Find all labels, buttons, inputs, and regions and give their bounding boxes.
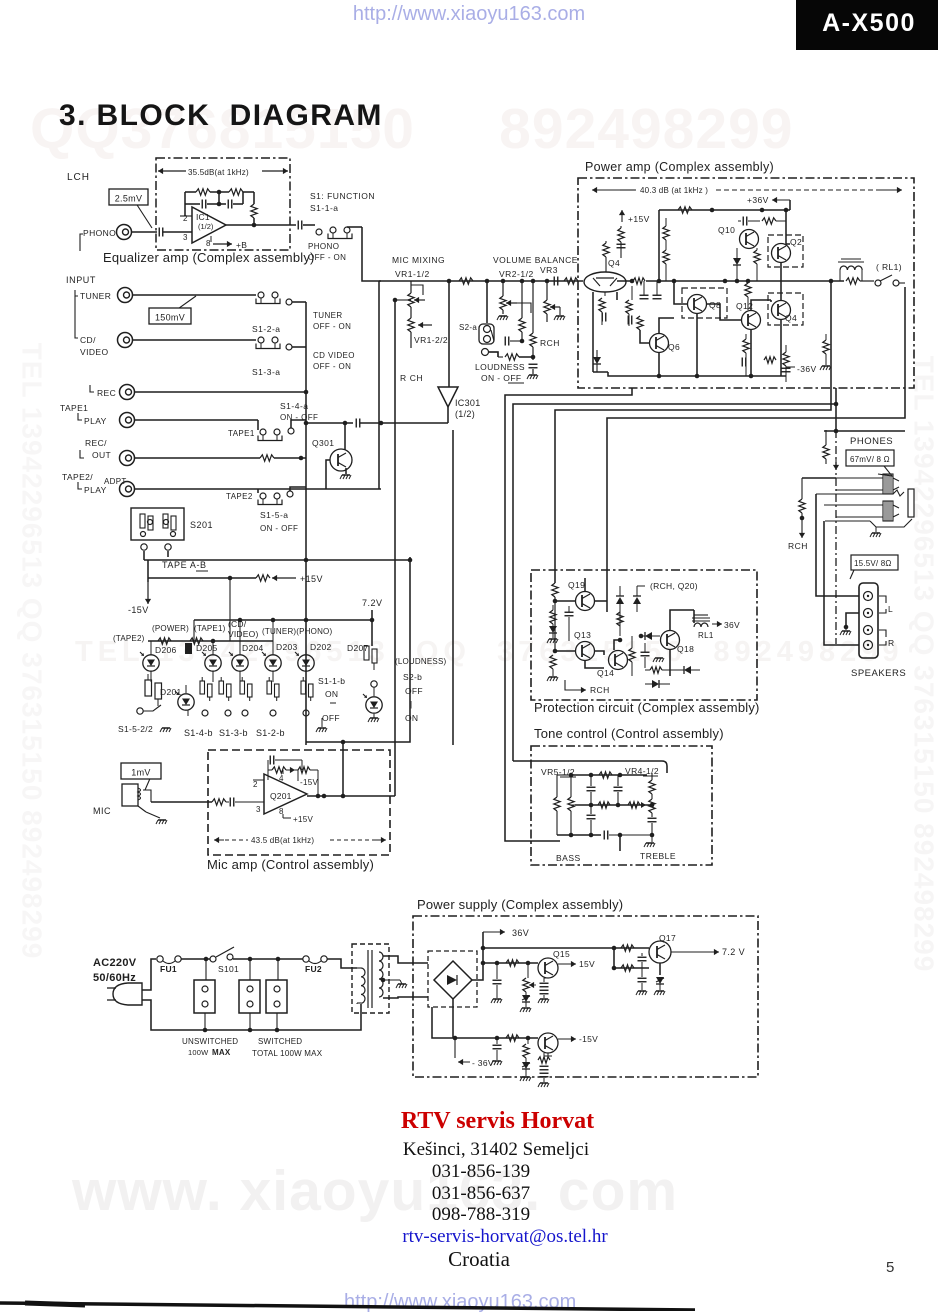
resistor q17 base: [621, 945, 634, 951]
svg-text:VOLUME BALANCE: VOLUME BALANCE: [493, 255, 578, 265]
ground treble: [651, 835, 653, 842]
resistor q19 base: [552, 583, 558, 597]
resistor neg: [506, 1035, 519, 1041]
svg-text:SPEAKERS: SPEAKERS: [851, 668, 906, 679]
svg-text:PHONO: PHONO: [308, 242, 339, 251]
LED D202: [295, 652, 314, 671]
wire run W4: [607, 287, 905, 612]
svg-text:(LOUDNESS): (LOUDNESS): [395, 657, 446, 666]
connector TUNER jack: [118, 288, 133, 303]
ground ps1: [491, 999, 502, 1003]
svg-text:CD VIDEO: CD VIDEO: [313, 351, 355, 360]
svg-text:LOUDNESS: LOUDNESS: [475, 362, 525, 372]
label -36V ps: [454, 1038, 456, 1058]
potentiometer VR2: [502, 281, 504, 296]
capacitor c1: [640, 295, 649, 299]
wire out drop: [835, 388, 837, 430]
svg-text:S201: S201: [190, 520, 213, 530]
resistor q15: [506, 960, 519, 966]
wire q8 base: [674, 281, 688, 304]
LED D203: [262, 652, 281, 671]
AC plug: [113, 983, 142, 1005]
callout 1mV: [121, 763, 161, 790]
tone bottom rail: [557, 834, 601, 836]
capacitor q17: [641, 953, 643, 956]
transistor Q16: [538, 1033, 558, 1053]
svg-text:(TAPE1): (TAPE1): [194, 624, 226, 633]
capacitor balance: [529, 364, 538, 368]
capacitor q17 e: [641, 975, 643, 977]
wire bridge neg: [452, 999, 454, 1038]
wire to fu2: [233, 958, 303, 960]
ground zn: [520, 1077, 531, 1081]
wire speaker R: [824, 521, 859, 645]
switch pair S1-5: [145, 680, 152, 696]
ground phones: [875, 527, 877, 532]
tone mid rail: [575, 804, 652, 806]
resistor vr5b: [570, 775, 572, 797]
svg-text:S1-5-2/2: S1-5-2/2: [118, 724, 153, 734]
svg-text:(TAPE2): (TAPE2): [113, 634, 145, 643]
phones feed line: [824, 430, 905, 432]
svg-text:UNSWITCHED: UNSWITCHED: [182, 1037, 238, 1046]
contact row: [202, 710, 208, 716]
wire q17 lower: [614, 948, 649, 968]
switch S201: [131, 508, 184, 540]
wires led row to switches: [187, 710, 189, 716]
resistor in1: [605, 241, 607, 243]
resistor q15 base leg: [527, 963, 529, 978]
wire play: [135, 419, 258, 421]
svg-text:Q10: Q10: [718, 225, 735, 235]
wire run W2: [513, 404, 836, 761]
svg-text:VR2-1/2: VR2-1/2: [499, 269, 534, 279]
bridge rectifier box: [428, 951, 477, 1007]
svg-text:Q13: Q13: [574, 630, 591, 640]
resistor loudness2: [505, 354, 519, 360]
svg-text:MIC MIXING: MIC MIXING: [392, 255, 445, 265]
gain measure 35.5dB(at 1kHz): [158, 168, 186, 174]
svg-text:Q4: Q4: [785, 313, 797, 323]
pin 1: [226, 224, 296, 226]
wire q6 base: [640, 330, 649, 343]
svg-text:100W: 100W: [188, 1048, 209, 1057]
svg-text:D203: D203: [276, 642, 298, 652]
svg-text:-15V: -15V: [579, 1034, 598, 1044]
svg-text:R CH: R CH: [400, 373, 423, 383]
connector PLAY jack: [120, 413, 135, 428]
svg-text:TAPE2: TAPE2: [226, 492, 253, 501]
svg-text:2.5mV: 2.5mV: [115, 194, 143, 204]
resistor fb2: [229, 189, 243, 195]
wire q301 base: [326, 460, 330, 489]
wire to s101: [181, 958, 210, 960]
capacitor q19: [565, 612, 574, 616]
resistor vr5a: [556, 775, 558, 797]
svg-text:+15V: +15V: [628, 214, 650, 224]
fuse FU2: [303, 956, 309, 962]
diode d19b: [633, 596, 641, 604]
svg-text:D205: D205: [196, 643, 218, 653]
negative rail: [432, 1007, 538, 1038]
capacitor c2: [653, 295, 662, 299]
capacitor loudness: [498, 356, 503, 358]
terminal L+: [864, 592, 873, 601]
resistor re2: [743, 339, 749, 353]
transistor Q18: [661, 631, 680, 650]
capacitor mic in: [230, 798, 234, 807]
svg-text:4: 4: [279, 774, 284, 783]
svg-text:TREBLE: TREBLE: [640, 851, 676, 861]
svg-text:Tone control (Control assembly: Tone control (Control assembly): [534, 726, 724, 741]
switch S1-2-a: [256, 292, 280, 304]
svg-text:Protection circuit (Complex as: Protection circuit (Complex assembly): [534, 700, 760, 715]
resistor q16 leg: [527, 1038, 529, 1044]
svg-text:OUT: OUT: [92, 450, 111, 460]
LED D201: [175, 691, 194, 710]
wire Q301 collector: [344, 423, 346, 450]
diode vbe: [593, 357, 601, 364]
svg-text:PHONES: PHONES: [850, 436, 893, 447]
wire mic input: [151, 801, 212, 803]
svg-text:2: 2: [253, 780, 258, 789]
vertical feed q10: [658, 210, 660, 281]
svg-text:( RL1): ( RL1): [876, 262, 902, 272]
phones dash bus: [835, 430, 837, 644]
svg-text:35.5dB(at 1kHz): 35.5dB(at 1kHz): [188, 168, 249, 177]
capacitor q15 e: [543, 978, 545, 982]
ground balance: [527, 375, 538, 379]
svg-text:OFF: OFF: [322, 713, 340, 723]
switch D207: [364, 646, 369, 660]
wire speaker L: [816, 494, 859, 596]
callout 15.5V/8ohm: [851, 555, 898, 570]
capacitor q4e: [602, 313, 606, 322]
label R: [879, 630, 886, 645]
svg-text:D201: D201: [160, 687, 182, 697]
svg-text:REC/: REC/: [85, 438, 107, 448]
wire IC301 output: [447, 407, 449, 423]
wire secondary top: [383, 956, 428, 963]
svg-text:-36V: -36V: [797, 364, 817, 374]
svg-text:43.5 dB(at 1kHz): 43.5 dB(at 1kHz): [251, 836, 314, 845]
svg-text:Q6: Q6: [668, 342, 680, 352]
dashed box Q4: [768, 293, 803, 325]
wire q15 feed: [483, 962, 538, 964]
wire tuner: [133, 294, 256, 296]
resistor vr4 top: [651, 773, 653, 780]
potentiometer VR1-2/2: [408, 318, 414, 332]
diode zener2: [656, 977, 664, 984]
svg-text:S1-1-a: S1-1-a: [310, 203, 339, 213]
diode zenern: [522, 1062, 530, 1069]
equalizer amp assembly box: [156, 158, 290, 250]
svg-text:MIC: MIC: [93, 806, 111, 816]
resistor r5: [754, 250, 760, 264]
svg-text:S2-b: S2-b: [403, 672, 422, 682]
protection assembly box: [531, 570, 757, 700]
svg-text:36V: 36V: [724, 620, 740, 630]
wire mains top: [142, 959, 156, 990]
potentiometer VR3: [546, 281, 548, 300]
svg-text:VR1-2/2: VR1-2/2: [414, 335, 448, 345]
diode q18 base: [645, 632, 652, 640]
resistor q10: [762, 218, 776, 224]
resistor main: [564, 278, 578, 284]
resistor q14 r: [631, 636, 633, 648]
svg-text:RL1: RL1: [698, 631, 714, 640]
contact left: [137, 708, 143, 714]
svg-text:36V: 36V: [512, 928, 529, 938]
mic connector: [122, 784, 138, 806]
svg-text:D202: D202: [310, 642, 332, 652]
svg-text:Q2: Q2: [790, 237, 802, 247]
jack sleeve: [908, 489, 914, 517]
ground mic: [146, 812, 160, 818]
resistor rail: [678, 207, 692, 213]
label 36V prot: [712, 621, 722, 627]
resistor fb main: [633, 278, 645, 284]
svg-text:S1: FUNCTION: S1: FUNCTION: [310, 191, 375, 201]
diode left: [549, 626, 557, 633]
svg-text:Q15: Q15: [553, 949, 570, 959]
resistor r8: [823, 340, 829, 354]
svg-text:8: 8: [206, 239, 211, 248]
resistor q4e: [604, 292, 606, 296]
svg-text:15.5V/ 8Ω: 15.5V/ 8Ω: [854, 559, 892, 568]
connector REC/OUT jack: [120, 451, 135, 466]
svg-text:3: 3: [183, 233, 188, 242]
feedback mic cap: [267, 760, 269, 780]
tone top rail: [571, 774, 647, 776]
resistor +15V: [256, 575, 270, 581]
svg-text:Q19: Q19: [568, 580, 585, 590]
svg-text:RCH: RCH: [590, 685, 610, 695]
capacitor tone c1: [590, 775, 592, 786]
svg-text:+15V: +15V: [300, 574, 323, 584]
wire secondary bottom: [383, 997, 428, 998]
feedback mic res1: [268, 769, 272, 771]
svg-text:- 36V: - 36V: [472, 1058, 494, 1068]
capacitor -36: [782, 368, 791, 372]
wire speaker gnd: [846, 613, 859, 627]
svg-text:40.3 dB (at 1kHz ): 40.3 dB (at 1kHz ): [640, 186, 708, 195]
resistor led rail2: [190, 638, 203, 644]
wire mains bottom: [142, 1000, 361, 1030]
ground s11b: [316, 728, 327, 732]
ground q13: [547, 677, 558, 681]
terminal R-: [864, 626, 873, 635]
svg-text:S1-3-b: S1-3-b: [219, 728, 248, 738]
capacitor q10: [743, 217, 747, 226]
outlet unswitched: [194, 980, 215, 1013]
svg-text:15V: 15V: [579, 959, 595, 969]
svg-text:D204: D204: [242, 643, 264, 653]
headphone plug 2: [824, 505, 883, 517]
ground -36: [496, 1058, 498, 1060]
wire run W3: [555, 281, 831, 583]
wire +15V feed: [148, 577, 256, 579]
switch S1-2-b2: [267, 677, 279, 701]
connector REC jack: [120, 385, 135, 400]
svg-text:AC220V: AC220V: [93, 957, 137, 969]
relay RL1 prot: [694, 623, 708, 627]
bridge rectifier: [434, 961, 472, 999]
svg-text:(POWER): (POWER): [152, 624, 189, 633]
diode low: [684, 666, 691, 674]
junction dots main line: [630, 279, 635, 284]
ground loudness led: [368, 718, 379, 722]
ground s15: [160, 728, 171, 732]
led rail A: [194, 619, 372, 621]
svg-text:67mV/ 8 Ω: 67mV/ 8 Ω: [850, 455, 890, 464]
svg-text:ON: ON: [405, 713, 418, 723]
svg-text:PHONO: PHONO: [83, 228, 116, 238]
callout 67mV/8ohm: [846, 450, 894, 466]
wire emitters: [659, 314, 781, 376]
svg-text:RCH: RCH: [788, 541, 808, 551]
svg-text:REC: REC: [97, 388, 116, 398]
label L: [879, 596, 886, 613]
label +15V mic: [283, 817, 291, 819]
wire vr1 down: [394, 300, 396, 796]
diode zener1: [522, 995, 530, 1002]
svg-text:D206: D206: [155, 645, 177, 655]
transformer center tap: [383, 979, 400, 981]
svg-text:(RCH, Q20): (RCH, Q20): [650, 581, 698, 591]
ground Q301: [345, 468, 347, 474]
svg-text:Mic amp (Control assembly): Mic amp (Control assembly): [207, 857, 374, 872]
svg-text:(1/2): (1/2): [198, 222, 214, 231]
wire loudness bus: [452, 430, 454, 745]
capacitor q14: [641, 652, 650, 656]
connector PLAY2 jack: [120, 482, 135, 497]
svg-text:1mV: 1mV: [131, 768, 150, 778]
svg-text:MAX: MAX: [212, 1048, 231, 1057]
svg-text:TOTAL 100W MAX: TOTAL 100W MAX: [252, 1049, 323, 1058]
speaker terminal strip: [859, 583, 878, 658]
resistor loudness tap: [521, 281, 523, 318]
LED D206: [140, 652, 159, 671]
svg-text:S1-5-a: S1-5-a: [260, 510, 289, 520]
power amp assembly box: [578, 178, 914, 388]
contact S2-a: [482, 349, 489, 356]
main input bus: [305, 302, 307, 745]
capacitor ps1: [496, 963, 498, 979]
svg-text:+36V: +36V: [747, 195, 769, 205]
switch S101: [210, 956, 216, 962]
svg-text:PLAY: PLAY: [84, 485, 107, 495]
headphone plug 1: [836, 478, 883, 490]
svg-text:ADPT: ADPT: [104, 477, 127, 486]
capacitor after IC1: [298, 221, 302, 230]
wire q18 emit: [669, 650, 671, 676]
diode d19a: [616, 596, 624, 604]
LED D205: [202, 652, 221, 671]
capacitor c3: [628, 316, 632, 325]
diode d2: [733, 258, 741, 265]
svg-text:CD/: CD/: [80, 335, 96, 345]
capacitor muting: [356, 419, 360, 428]
diode low2: [652, 680, 659, 688]
svg-text:S1-1-b: S1-1-b: [318, 676, 345, 686]
svg-text:Equalizer amp (Complex assembl: Equalizer amp (Complex assembly): [103, 250, 315, 265]
rail 36V: [483, 947, 649, 949]
svg-text:OFF - ON: OFF - ON: [313, 362, 351, 371]
main signal line: [379, 280, 583, 282]
svg-text:S2-a: S2-a: [459, 323, 477, 332]
svg-text:ON - OFF: ON - OFF: [481, 373, 522, 383]
ground low: [653, 658, 664, 662]
jack outline 2: [825, 519, 912, 527]
wire play2: [135, 488, 381, 490]
svg-text:150mV: 150mV: [155, 313, 185, 323]
resistor q13 left: [550, 655, 556, 669]
switch S1-2-b: [240, 677, 252, 701]
switch S1-4-b: [200, 677, 212, 701]
svg-text:(1/2): (1/2): [455, 409, 475, 419]
wire to trafo: [327, 959, 357, 968]
wire tape monitor bus: [306, 557, 410, 742]
svg-text:TAPE1: TAPE1: [60, 403, 88, 413]
resistor bias1: [620, 226, 622, 228]
wire q16 emitter: [544, 1053, 552, 1056]
svg-text:VIDEO: VIDEO: [80, 347, 108, 357]
op-amp Q201: [264, 774, 307, 814]
ground left: [552, 633, 554, 638]
ground n3: [538, 1083, 549, 1087]
wire muting line: [306, 422, 353, 424]
svg-text:R: R: [888, 638, 895, 648]
svg-text:TUNER: TUNER: [80, 291, 111, 301]
svg-text:VR1-1/2: VR1-1/2: [395, 269, 430, 279]
wire q2-q4: [780, 263, 782, 301]
dashed box Q2: [768, 235, 803, 267]
wire cd: [133, 339, 256, 341]
gain measure 40.3dB: [592, 187, 620, 193]
op-amp IC1 (1/2): [192, 207, 226, 243]
outlet switched1: [239, 980, 260, 1013]
resistor rch phones: [801, 478, 803, 499]
resistor re1: [745, 283, 751, 297]
svg-text:Q18: Q18: [677, 644, 694, 654]
resistor tone mid2: [628, 802, 640, 808]
callout 2.5mV: [109, 189, 152, 228]
relay RL1 coil: [839, 270, 841, 281]
dashed box Q8: [682, 288, 727, 318]
wire mic out riser: [342, 742, 344, 796]
tab mark D205: [185, 643, 192, 654]
svg-text:OFF: OFF: [405, 686, 423, 696]
wire q4 tail: [592, 292, 594, 372]
outlet switched2: [266, 980, 287, 1013]
tone control assembly box: [531, 746, 712, 865]
ground ps3: [636, 991, 647, 995]
wire q8-q12: [707, 304, 741, 320]
svg-text:BASS: BASS: [556, 853, 581, 863]
wire rec: [135, 391, 306, 393]
led rail B: [148, 640, 273, 642]
transistor Q4 lower: [772, 301, 791, 320]
ground z2: [654, 991, 665, 995]
resistor q19 left: [550, 610, 556, 624]
wire function to main bus: [362, 227, 381, 281]
transistor Q6: [650, 334, 669, 353]
LED loudness: [363, 694, 382, 713]
label +15V: [619, 210, 625, 222]
transistor Q8: [688, 295, 707, 314]
svg-text:S1-4-b: S1-4-b: [184, 728, 213, 738]
